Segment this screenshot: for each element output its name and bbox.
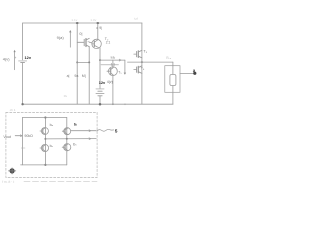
- transistor M1: [40, 128, 48, 135]
- wire right column: [141, 23, 143, 104]
- wire left rail upper: [22, 23, 24, 60]
- node Q1 drain: [88, 61, 90, 63]
- svg-text:90kΩ: 90kΩ: [24, 134, 33, 138]
- svg-text:12v: 12v: [25, 55, 32, 60]
- arrow annotation voltage source 1: [14, 50, 16, 70]
- svg-text:o 9|: o 9|: [96, 26, 102, 30]
- svg-text:1.0v: 1.0v: [90, 18, 96, 22]
- svg-text:f m. ℓt · ℓ: f m. ℓt · ℓ: [2, 180, 14, 184]
- svg-text:ch 1: ch 1: [10, 108, 16, 112]
- svg-text:0|: 0|: [79, 32, 82, 36]
- svg-text:bₛ: bₛ: [73, 142, 77, 146]
- svg-text:a: a: [193, 68, 196, 73]
- wire bridge left: [22, 118, 24, 165]
- svg-text:bₐ: bₐ: [50, 123, 54, 127]
- wire mid horizontal A: [100, 59, 125, 61]
- node faint on rail: [124, 104, 126, 106]
- arrow Vout input: [15, 135, 22, 137]
- wire terminal a: [180, 72, 194, 74]
- transistor Q1: [77, 38, 89, 46]
- node terminal a: [193, 72, 196, 75]
- svg-text:4(v): 4(v): [107, 80, 113, 84]
- wire stub down: [124, 60, 126, 73]
- wire Q5 top lead: [112, 60, 114, 67]
- arrow annotation current 1: [69, 30, 71, 47]
- tick on left wall: [21, 147, 25, 149]
- resistor RL: [170, 75, 176, 86]
- arrow mid output: [89, 138, 91, 140]
- svg-text:9a: 9a: [74, 74, 78, 78]
- node bottom-left junction: [21, 103, 23, 105]
- wire output horizontal: [128, 61, 173, 63]
- node battery2 rail: [99, 103, 102, 106]
- wire Q5 bottom lead: [112, 75, 114, 104]
- wire Q2 gate link: [89, 42, 91, 44]
- battery V1: [19, 61, 27, 63]
- arrow upper output: [89, 130, 91, 132]
- caption rule line: [24, 180, 97, 182]
- svg-text:12v: 12v: [99, 80, 106, 85]
- node Q5 rail: [112, 103, 114, 105]
- svg-text:5: 5: [115, 129, 118, 135]
- terminal blob bottom-left: [8, 168, 15, 174]
- svg-text:1.1: 1.1: [111, 62, 116, 66]
- wire left rail lower: [22, 63, 24, 105]
- svg-text:4(v): 4(v): [3, 56, 10, 61]
- wire column Q1 drain: [88, 47, 90, 105]
- svg-text:Rₖₐ: Rₖₐ: [166, 56, 172, 60]
- node Q2 top: [96, 22, 99, 24]
- svg-text:T₄: T₄: [141, 66, 145, 70]
- wire mid output: [45, 138, 96, 140]
- svg-text:T₃: T₃: [143, 50, 147, 54]
- wire bridge column 1: [44, 118, 46, 165]
- wire mid horizontal B: [101, 64, 119, 66]
- svg-text:T₅: T₅: [118, 71, 122, 75]
- svg-text:+: +: [15, 56, 17, 60]
- wire bridge top: [23, 117, 67, 119]
- svg-text:Vout: Vout: [3, 135, 12, 139]
- wire Q2 collector lead: [97, 23, 99, 40]
- svg-text:a|: a|: [67, 74, 70, 78]
- wire squiggle terminal 5: [97, 129, 114, 131]
- wire battery2 top lead: [99, 60, 101, 88]
- node bias top: [76, 22, 79, 24]
- node mid col2: [66, 138, 68, 140]
- transistor Q3: [134, 50, 142, 58]
- node col1 bottom: [44, 164, 46, 166]
- svg-text:1.1v: 1.1v: [71, 18, 77, 22]
- node mid col1: [44, 138, 46, 140]
- wire upper output: [71, 130, 96, 132]
- svg-text:bₒ: bₒ: [50, 144, 54, 148]
- wire Q2 emitter down: [99, 48, 101, 60]
- svg-text:2:1: 2:1: [106, 41, 111, 45]
- wire battery2 bottom lead: [99, 96, 101, 104]
- node mid column: [99, 59, 101, 61]
- transistor M2: [62, 128, 70, 135]
- transistor M3: [40, 144, 49, 151]
- svg-text:M|: M|: [82, 74, 86, 78]
- node col1 top: [44, 116, 46, 118]
- wire bridge column 2: [66, 118, 68, 165]
- svg-text:bₗ: bₗ: [74, 123, 77, 127]
- transistor Q5: [107, 67, 117, 76]
- arrow current ia: [119, 59, 121, 61]
- wire bottom rail: [23, 103, 173, 105]
- svg-text:0v: 0v: [64, 94, 68, 98]
- battery V2: [96, 89, 104, 96]
- load box: [165, 66, 180, 93]
- svg-text:i₍a₎: i₍a₎: [111, 55, 116, 59]
- wire VDD top rail: [23, 22, 142, 24]
- svg-text:t₁d: t₁d: [134, 17, 138, 21]
- svg-text:9(a): 9(a): [57, 35, 65, 40]
- transistor M4: [62, 144, 71, 151]
- dashed box output stage: [6, 112, 97, 177]
- transistor Q2: [92, 39, 102, 48]
- transistor Q4: [134, 66, 142, 74]
- wire load drop: [172, 62, 174, 104]
- wire bridge: [77, 61, 89, 63]
- wire bridge bottom: [21, 164, 67, 166]
- node output column: [141, 61, 143, 63]
- node bias mid: [76, 61, 78, 63]
- wire column bias: [76, 23, 78, 104]
- arrow stub head: [124, 73, 126, 75]
